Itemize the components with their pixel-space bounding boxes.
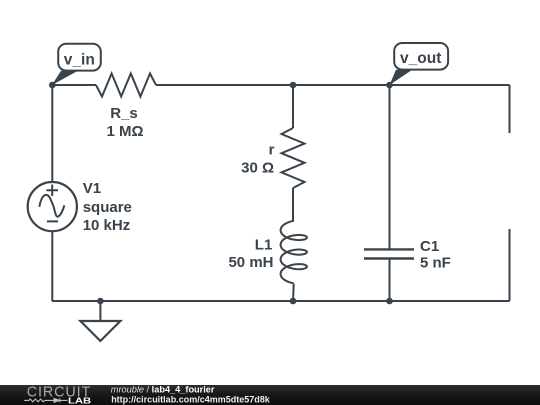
label L1 designator (255, 237, 273, 254)
label C1 designator (420, 238, 439, 255)
svg-text:1 MΩ: 1 MΩ (106, 123, 143, 140)
svg-text:V1: V1 (83, 180, 101, 197)
node flag bubble v_out (394, 43, 448, 70)
label C1 value 5 nF (420, 254, 451, 271)
label R_s designator (110, 105, 138, 122)
wire: v_out node down to capacitor C1 top plate (389, 85, 391, 249)
wire: resistor r to inductor L1 (292, 188, 295, 221)
svg-text:10 kHz: 10 kHz (83, 217, 131, 234)
resistor r vertical zigzag (282, 128, 305, 188)
svg-text:R_s: R_s (110, 105, 138, 122)
wire: v_in node to R_s left terminal (52, 84, 96, 86)
node flag tail v_out (390, 70, 413, 85)
V1 minus sign (47, 220, 58, 222)
svg-text:square: square (83, 199, 132, 216)
svg-text:50 mH: 50 mH (228, 254, 273, 271)
label V1 designator (83, 180, 101, 197)
wire: V1 bottom terminal down to bottom net (51, 231, 53, 301)
V1 plus sign (46, 185, 58, 197)
wire: open terminal stub top-right going down (509, 85, 511, 133)
svg-text:30 Ω: 30 Ω (241, 160, 274, 177)
voltage source V1 circle (28, 182, 77, 231)
junction node: middle top (290, 82, 297, 89)
CircuitLab logo resistor-diode squiggle (24, 398, 67, 402)
capacitor C1 plates (364, 249, 414, 258)
footer bar (0, 385, 540, 405)
wire: v_in node down to V1 top terminal (51, 85, 53, 182)
label L1 value 50 mH (228, 254, 273, 271)
label V1 frequency 10 kHz (83, 217, 131, 234)
junction node: ground (97, 298, 104, 305)
footer author and title (111, 384, 271, 404)
svg-text:5 nF: 5 nF (420, 254, 451, 271)
svg-text:r: r (269, 141, 275, 158)
inductor L1 coil (281, 221, 307, 283)
wire: open terminal stub bottom-right going up (509, 229, 511, 301)
junction node: v_out (386, 82, 393, 89)
wire: ground stub (99, 301, 101, 321)
label r designator (269, 141, 275, 158)
junction node: v_in (49, 82, 56, 89)
V1 sine waveform (39, 195, 64, 217)
wire: top junction down to resistor r (292, 85, 294, 128)
wire: capacitor C1 bottom plate to bottom junction (389, 259, 391, 302)
svg-text:v_in: v_in (64, 52, 95, 69)
ground symbol triangle (80, 321, 120, 341)
label V1 type square (83, 199, 132, 216)
svg-text:v_out: v_out (400, 50, 441, 67)
wire: R_s right terminal to middle junction (156, 84, 293, 86)
junction node: middle bottom (290, 298, 297, 305)
label r value 30 ohm (241, 160, 274, 177)
node flag bubble v_in (58, 44, 101, 71)
resistor R_s zigzag (96, 74, 156, 97)
CircuitLab logo word LAB (68, 396, 91, 405)
wire: v_out node to top-right corner (390, 84, 510, 86)
junction node: capacitor bottom (386, 298, 393, 305)
svg-text:C1: C1 (420, 238, 439, 255)
wire: inductor L1 to bottom junction (292, 284, 295, 301)
svg-text:L1: L1 (255, 237, 273, 254)
label R_s value 1 Mohm (106, 123, 143, 140)
node flag tail v_in (52, 71, 78, 85)
CircuitLab logo word CIRCUIT (27, 384, 91, 400)
wire: bottom net from left to right (52, 300, 510, 302)
wire: middle junction to v_out node (293, 84, 390, 86)
